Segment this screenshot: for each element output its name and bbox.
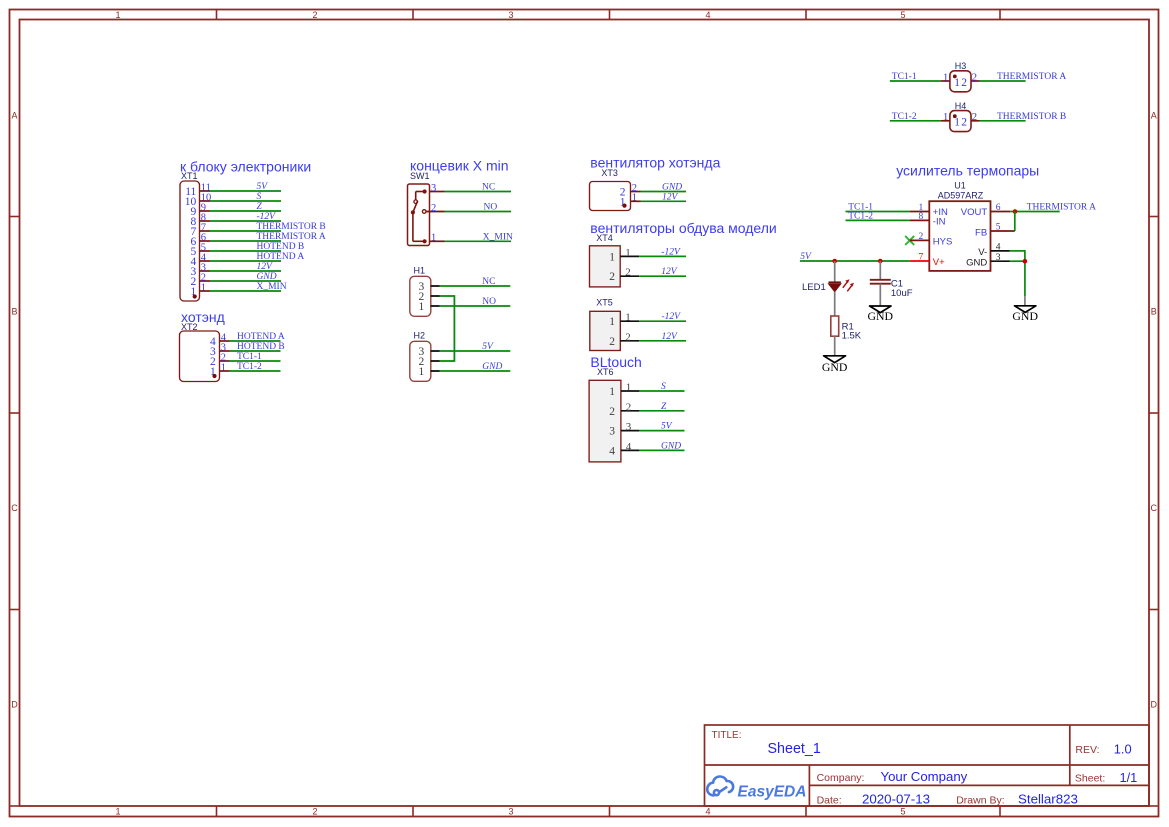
svg-text:Date:: Date: xyxy=(817,794,842,806)
svg-text:U1: U1 xyxy=(954,181,966,191)
svg-text:HOTEND A: HOTEND A xyxy=(257,252,305,262)
frame column numbers bottom xyxy=(115,807,905,817)
svg-text:усилитель термопары: усилитель термопары xyxy=(896,163,1039,179)
svg-text:H2: H2 xyxy=(414,331,426,341)
XT1 pin 5 stub xyxy=(200,250,211,252)
SW1 pin 3 wire xyxy=(445,191,512,193)
XT1 pin 4 wire xyxy=(210,260,281,262)
XT4 pin 2 wire xyxy=(639,275,686,277)
XT1 pin 9 stub xyxy=(200,210,211,212)
svg-text:EasyEDA: EasyEDA xyxy=(738,783,807,800)
svg-text:NO: NO xyxy=(482,297,496,307)
XT4 pin 2 stub xyxy=(620,275,639,277)
XT5 pin 2 wire xyxy=(639,340,686,342)
XT3 pin 1 wire xyxy=(641,200,687,202)
svg-text:3: 3 xyxy=(626,421,632,433)
frame row ticks right xyxy=(1149,217,1159,610)
capacitor C1 plates xyxy=(870,280,891,284)
svg-text:Z: Z xyxy=(257,202,263,212)
R1 bottom lead xyxy=(834,336,836,356)
svg-text:1: 1 xyxy=(221,362,226,373)
wire V- to GND node xyxy=(1010,250,1025,252)
svg-text:V-: V- xyxy=(978,247,987,258)
wire TC1-2 to U1 pin 8 xyxy=(846,219,910,221)
svg-text:D: D xyxy=(11,700,18,710)
XT1 pin 6 stub xyxy=(200,240,211,242)
U1 pin 8 stub xyxy=(910,219,930,221)
XT1 pin 1 stub xyxy=(200,290,211,292)
svg-text:-12V: -12V xyxy=(661,247,681,257)
svg-text:1: 1 xyxy=(609,251,615,263)
svg-text:3: 3 xyxy=(508,10,513,20)
svg-text:5: 5 xyxy=(900,10,905,20)
XT1 pin 4 stub xyxy=(200,260,211,262)
svg-text:1: 1 xyxy=(419,366,425,378)
svg-text:Your Company: Your Company xyxy=(881,769,968,784)
XT6 pin 1 stub xyxy=(621,390,640,392)
H4 pin 2 wire xyxy=(980,120,1026,122)
XT3 pin 2 stub xyxy=(631,191,641,193)
svg-text:1: 1 xyxy=(625,312,631,324)
XT6 pin 3 stub xyxy=(621,430,640,432)
U1 pin 4 stub (V-) xyxy=(991,250,1010,252)
svg-text:2: 2 xyxy=(972,111,978,123)
svg-text:REV:: REV: xyxy=(1075,744,1099,756)
svg-text:B: B xyxy=(1151,307,1157,317)
svg-text:GND: GND xyxy=(966,257,987,268)
XT1 pin 10 wire xyxy=(210,200,281,202)
svg-text:D: D xyxy=(1151,700,1158,710)
svg-text:4: 4 xyxy=(705,10,710,20)
SW1 pin 1 wire xyxy=(445,240,512,242)
wire GND pin to node xyxy=(1010,260,1025,262)
XT1 pin 11 stub xyxy=(200,190,211,192)
SW1 pin 2 stub xyxy=(426,211,445,213)
frame row ticks left xyxy=(10,217,20,610)
svg-text:Sheet_1: Sheet_1 xyxy=(768,741,821,757)
XT2 pin 3 stub xyxy=(220,350,230,352)
svg-text:2: 2 xyxy=(972,71,978,83)
svg-text:вентиляторы обдува модели: вентиляторы обдува модели xyxy=(590,220,776,236)
svg-text:3: 3 xyxy=(431,183,436,194)
svg-text:2: 2 xyxy=(609,406,615,418)
svg-text:XT3: XT3 xyxy=(601,168,618,178)
U1 pin 2 stub xyxy=(910,239,930,241)
svg-text:H3: H3 xyxy=(955,61,967,71)
svg-text:Stellar823: Stellar823 xyxy=(1018,792,1078,807)
svg-text:SW1: SW1 xyxy=(410,171,430,181)
svg-text:5V: 5V xyxy=(482,342,494,352)
SW1 internal contact pin 2 circle xyxy=(422,210,426,214)
XT1 pin 9 wire xyxy=(210,210,281,212)
connector XT1 body xyxy=(180,181,200,301)
svg-text:5V: 5V xyxy=(257,182,269,192)
LED1 emission arrows xyxy=(843,279,854,291)
svg-text:XT4: XT4 xyxy=(596,233,613,243)
svg-text:2020-07-13: 2020-07-13 xyxy=(862,792,930,807)
XT1 pin 6 wire xyxy=(210,240,281,242)
C1 bottom lead xyxy=(879,284,881,306)
svg-text:THERMISTOR A: THERMISTOR A xyxy=(997,72,1066,82)
XT1 pin 3 wire xyxy=(210,270,281,272)
title block dividers xyxy=(705,725,1150,806)
H1 pin 1 stub xyxy=(431,305,440,307)
LED LED1 symbol xyxy=(828,282,841,292)
H1 pin 3 stub xyxy=(431,285,440,287)
svg-text:FB: FB xyxy=(975,227,987,238)
frame column numbers top xyxy=(115,10,905,20)
svg-text:-12V: -12V xyxy=(257,212,277,222)
XT3 pin 2 wire xyxy=(641,191,687,193)
svg-text:1: 1 xyxy=(943,71,949,83)
SW1 internal contact pin 3 xyxy=(416,191,425,193)
svg-text:AD597ARZ: AD597ARZ xyxy=(938,191,984,201)
svg-text:1: 1 xyxy=(943,111,949,123)
svg-text:GND: GND xyxy=(662,183,682,193)
wire VOUT net xyxy=(1010,211,1060,213)
svg-text:HOTEND A: HOTEND A xyxy=(237,332,285,342)
XT2 pin 2 wire xyxy=(230,360,281,362)
H1 pin 2 stub xyxy=(431,295,440,297)
svg-text:A: A xyxy=(11,111,17,121)
XT6 pin 4 stub xyxy=(621,449,640,451)
connector H1 body xyxy=(410,276,431,316)
U1 pin 2 no-connect X xyxy=(905,236,914,245)
svg-text:5: 5 xyxy=(900,807,905,817)
SW1 lever xyxy=(413,201,418,213)
XT1 pin 8 stub xyxy=(200,220,211,222)
junction dot VOUT xyxy=(1013,209,1018,214)
svg-text:2: 2 xyxy=(312,10,317,20)
LED1 cathode lead xyxy=(834,292,836,316)
svg-text:C: C xyxy=(1151,503,1158,513)
ground symbol at R1 xyxy=(824,356,846,363)
svg-text:THERMISTOR B: THERMISTOR B xyxy=(997,112,1066,122)
XT6 pin 2 stub xyxy=(621,410,640,412)
XT2 pin 4 stub xyxy=(220,340,230,342)
U1 pin 7 stub (V+) xyxy=(910,260,930,262)
frame column ticks top xyxy=(217,10,1001,20)
H3 pin 1 stub xyxy=(941,80,950,82)
svg-text:12V: 12V xyxy=(257,262,274,272)
U1 body xyxy=(929,201,990,271)
svg-text:THERMISTOR A: THERMISTOR A xyxy=(1027,202,1096,212)
svg-text:Sheet:: Sheet: xyxy=(1075,773,1105,785)
connector XT4 body xyxy=(590,246,621,287)
svg-text:1.0: 1.0 xyxy=(1114,742,1132,757)
XT3 pin-1 marker dot xyxy=(622,204,626,208)
svg-text:3: 3 xyxy=(609,426,615,438)
svg-text:1: 1 xyxy=(632,193,637,204)
wire 5V rail xyxy=(800,260,910,262)
svg-text:GND: GND xyxy=(1012,309,1038,323)
SW1 pin 2 wire xyxy=(445,211,512,213)
H2 pin 3 stub xyxy=(431,350,440,352)
svg-text:S: S xyxy=(661,382,666,392)
XT1 pin 10 stub xyxy=(200,200,211,202)
XT6 pin 3 wire xyxy=(639,430,684,432)
svg-text:2: 2 xyxy=(625,267,631,279)
svg-text:3: 3 xyxy=(996,253,1001,263)
XT1 pin 3 stub xyxy=(200,270,211,272)
XT2 pin 3 wire xyxy=(230,350,281,352)
XT5 pin 2 stub xyxy=(620,340,639,342)
U1 pin 5 stub (FB) xyxy=(991,230,1015,232)
svg-text:NC: NC xyxy=(482,183,495,193)
svg-text:6: 6 xyxy=(996,203,1001,213)
H1 pin 1 wire xyxy=(440,305,511,307)
svg-text:2: 2 xyxy=(312,807,317,817)
svg-text:THERMISTOR B: THERMISTOR B xyxy=(257,222,326,232)
svg-text:2: 2 xyxy=(919,232,924,242)
XT5 pin 1 wire xyxy=(639,320,686,322)
svg-text:8: 8 xyxy=(919,212,924,222)
connector H3 body xyxy=(950,71,971,92)
svg-text:1: 1 xyxy=(115,10,120,20)
svg-text:TITLE:: TITLE: xyxy=(712,730,742,741)
H3 pin 2 wire xyxy=(980,80,1026,82)
svg-text:1: 1 xyxy=(625,247,631,259)
svg-text:GND: GND xyxy=(822,360,848,374)
svg-text:к блоку электроники: к блоку электроники xyxy=(180,159,311,175)
H4 inside dot xyxy=(953,114,957,118)
connector XT5 body xyxy=(590,311,621,350)
svg-text:1: 1 xyxy=(431,233,436,244)
junction dot LED1 tap xyxy=(832,259,837,264)
XT1 pin 1 wire xyxy=(210,290,281,292)
H2 pin 2 wire xyxy=(440,360,455,362)
svg-text:4: 4 xyxy=(996,243,1001,253)
XT5 pin 1 stub xyxy=(620,320,639,322)
H2 pin 1 stub xyxy=(431,370,440,372)
LED1 anode lead xyxy=(834,261,836,282)
SW1 internal common path xyxy=(412,212,414,241)
svg-text:TC1-2: TC1-2 xyxy=(237,362,262,372)
XT2 pin-1 marker dot xyxy=(212,374,216,378)
XT1 pin 5 wire xyxy=(210,250,281,252)
svg-text:1.5K: 1.5K xyxy=(842,330,862,341)
svg-text:4: 4 xyxy=(705,807,710,817)
svg-text:HOTEND B: HOTEND B xyxy=(257,242,305,252)
XT2 pin 1 stub xyxy=(220,370,230,372)
XT2 pin 4 wire xyxy=(230,340,281,342)
svg-text:2: 2 xyxy=(609,271,615,283)
frame row letters right xyxy=(1151,111,1158,710)
XT6 pin 4 wire xyxy=(639,449,684,451)
svg-text:H1: H1 xyxy=(414,266,426,276)
XT6 pin 1 wire xyxy=(639,390,684,392)
H4 pin 2 stub xyxy=(971,120,980,122)
svg-text:H4: H4 xyxy=(955,101,967,111)
XT1 pin 11 wire xyxy=(210,190,281,192)
svg-text:2: 2 xyxy=(431,203,436,214)
svg-text:GND: GND xyxy=(868,309,894,323)
svg-text:XT5: XT5 xyxy=(596,297,613,307)
svg-text:5: 5 xyxy=(996,223,1001,233)
switch SW1 body xyxy=(408,184,430,246)
svg-text:C: C xyxy=(11,503,18,513)
svg-text:12: 12 xyxy=(954,77,968,89)
svg-text:V+: V+ xyxy=(933,257,945,268)
svg-text:12V: 12V xyxy=(661,267,678,277)
H2 pin 1 wire xyxy=(440,370,511,372)
H1 pin 3 wire xyxy=(440,285,511,287)
svg-text:2: 2 xyxy=(625,331,631,343)
ground symbol at U1 xyxy=(1015,306,1036,313)
svg-text:TC1-1: TC1-1 xyxy=(892,72,917,82)
wire V-/GND down xyxy=(1024,250,1026,296)
H2 pin 2 stub xyxy=(431,360,440,362)
connector XT6 body xyxy=(589,380,621,462)
XT1 pin 2 wire xyxy=(210,280,281,282)
EasyEDA logo cloud xyxy=(707,776,733,795)
svg-text:1: 1 xyxy=(115,807,120,817)
XT2 pin 2 stub xyxy=(220,360,230,362)
H1 pin 2 wire to H2 pin 2 xyxy=(440,295,455,297)
svg-text:GND: GND xyxy=(257,272,277,282)
H4 pin 1 wire xyxy=(890,120,941,122)
XT3 pin 1 stub xyxy=(631,200,641,202)
XT1 pin 7 wire xyxy=(210,230,281,232)
svg-text:3: 3 xyxy=(508,807,513,817)
svg-text:2: 2 xyxy=(609,336,615,348)
svg-text:B: B xyxy=(11,307,17,317)
wire TC1-1 to U1 pin 1 xyxy=(846,211,910,213)
SW1 pin 3 stub xyxy=(430,191,445,193)
resistor R1 body xyxy=(831,316,839,336)
H3 pin 2 stub xyxy=(971,80,980,82)
H3 pin 1 wire xyxy=(890,80,941,82)
svg-text:Drawn By:: Drawn By: xyxy=(956,794,1004,806)
svg-text:NC: NC xyxy=(482,277,495,287)
svg-text:LED1: LED1 xyxy=(802,282,826,293)
U1 pin 3 stub (GND) xyxy=(991,260,1010,262)
ground symbol at C1 xyxy=(870,306,891,313)
H2 pin 3 wire xyxy=(440,350,511,352)
svg-text:S: S xyxy=(257,192,262,202)
svg-text:GND: GND xyxy=(482,362,502,372)
svg-text:HOTEND B: HOTEND B xyxy=(237,342,285,352)
svg-text:VOUT: VOUT xyxy=(961,207,988,218)
connector H4 body xyxy=(950,111,971,132)
svg-text:4: 4 xyxy=(626,441,632,453)
svg-text:X_MIN: X_MIN xyxy=(257,282,287,292)
wire vertical H1.2 to H2.2 xyxy=(453,295,455,362)
svg-text:12V: 12V xyxy=(662,192,679,202)
U1 pin 6 stub (VOUT) xyxy=(991,211,1011,213)
svg-text:12V: 12V xyxy=(662,332,679,342)
XT2 pin 1 wire xyxy=(230,370,281,372)
svg-text:1: 1 xyxy=(626,382,632,394)
frame row letters left xyxy=(11,111,18,710)
svg-text:1: 1 xyxy=(419,301,425,313)
svg-text:7: 7 xyxy=(919,253,924,263)
connector H2 body xyxy=(410,341,431,381)
H4 pin 1 stub xyxy=(941,120,950,122)
XT1 pin 8 wire xyxy=(210,220,281,222)
svg-text:THERMISTOR A: THERMISTOR A xyxy=(257,232,326,242)
svg-text:X_MIN: X_MIN xyxy=(483,232,513,242)
svg-text:1: 1 xyxy=(609,386,615,398)
svg-text:Z: Z xyxy=(661,402,667,412)
XT1 pin-1 marker dot xyxy=(193,294,197,298)
U1 pin 1 stub xyxy=(910,211,930,213)
svg-text:-12V: -12V xyxy=(662,312,682,322)
junction dot V-/GND xyxy=(1023,259,1028,264)
svg-text:5V: 5V xyxy=(661,422,673,432)
svg-text:1: 1 xyxy=(609,316,615,328)
connector XT2 body xyxy=(180,331,220,382)
svg-text:10uF: 10uF xyxy=(891,288,913,299)
ground symbol lead (U1) xyxy=(1024,296,1026,306)
C1 top lead xyxy=(879,261,881,279)
title block outline xyxy=(705,725,1150,806)
XT1 pin 7 stub xyxy=(200,230,211,232)
svg-text:TC1-1: TC1-1 xyxy=(237,352,262,362)
svg-text:A: A xyxy=(1151,111,1157,121)
XT1 pin 2 stub xyxy=(200,280,211,282)
svg-text:1/1: 1/1 xyxy=(1120,770,1138,785)
wire FB to VOUT xyxy=(1014,212,1016,232)
H3 inside dot xyxy=(953,75,957,79)
svg-text:2: 2 xyxy=(626,401,632,413)
svg-text:NO: NO xyxy=(484,203,498,213)
svg-text:XT6: XT6 xyxy=(597,367,614,377)
svg-text:1: 1 xyxy=(201,282,206,293)
svg-text:GND: GND xyxy=(661,441,681,451)
svg-text:-IN: -IN xyxy=(933,216,946,227)
svg-text:HYS: HYS xyxy=(933,236,953,247)
XT4 pin 1 wire xyxy=(639,255,686,257)
frame column ticks bottom xyxy=(217,806,1001,817)
junction dot C1 tap xyxy=(878,259,883,264)
connector XT3 body xyxy=(590,182,631,211)
svg-text:XT1: XT1 xyxy=(181,171,198,181)
SW1 pin 1 stub xyxy=(430,240,445,242)
svg-text:TC1-2: TC1-2 xyxy=(892,112,917,122)
svg-text:4: 4 xyxy=(609,445,615,457)
svg-text:Company:: Company: xyxy=(817,772,865,784)
XT6 pin 2 wire xyxy=(639,410,684,412)
XT4 pin 1 stub xyxy=(620,255,639,257)
svg-text:12: 12 xyxy=(954,117,968,129)
